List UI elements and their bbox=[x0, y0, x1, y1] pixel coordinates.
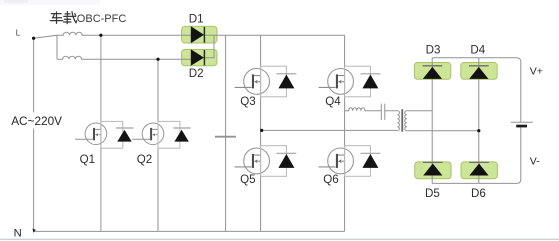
svg-text:D2: D2 bbox=[189, 67, 204, 80]
svg-text:AC~220V: AC~220V bbox=[11, 114, 62, 128]
svg-text:Q1: Q1 bbox=[80, 153, 95, 166]
svg-text:Q3: Q3 bbox=[240, 95, 255, 108]
svg-text:Q6: Q6 bbox=[323, 173, 338, 186]
svg-text:D4: D4 bbox=[470, 44, 485, 57]
svg-text:D5: D5 bbox=[425, 187, 440, 200]
svg-text:D6: D6 bbox=[471, 187, 486, 200]
svg-text:N: N bbox=[14, 228, 22, 240]
svg-text:D3: D3 bbox=[426, 44, 441, 57]
svg-text:L: L bbox=[16, 28, 21, 38]
svg-text:D1: D1 bbox=[189, 12, 204, 25]
svg-text:OBC-PFC: OBC-PFC bbox=[77, 13, 127, 25]
svg-text:Q2: Q2 bbox=[137, 153, 152, 166]
svg-text:Q5: Q5 bbox=[240, 173, 255, 186]
svg-text:V+: V+ bbox=[530, 66, 543, 78]
svg-text:V-: V- bbox=[530, 155, 540, 167]
svg-text:Q4: Q4 bbox=[325, 95, 341, 108]
